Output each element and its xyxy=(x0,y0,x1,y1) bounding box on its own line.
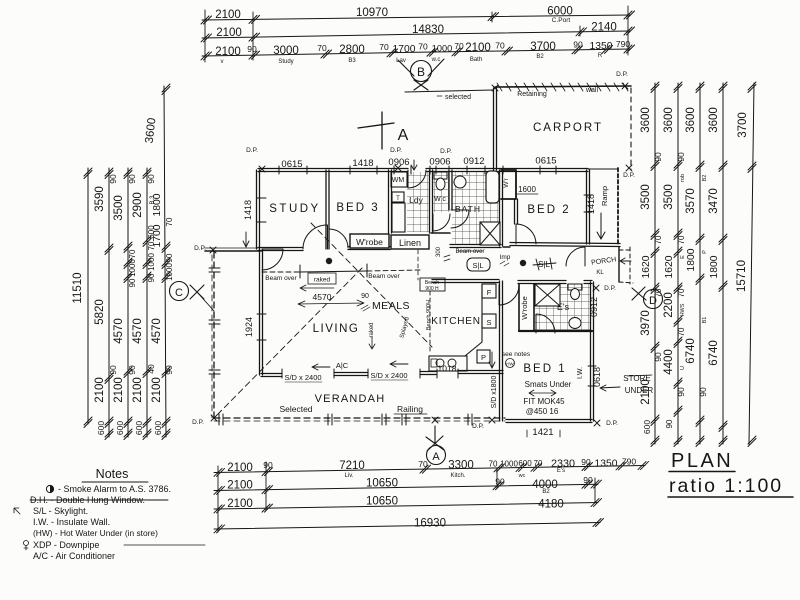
svg-text:1000: 1000 xyxy=(147,253,156,271)
dimension row top-2 xyxy=(201,22,635,42)
svg-text:90: 90 xyxy=(127,174,137,184)
svg-text:90: 90 xyxy=(665,419,674,428)
svg-text:CARPORT: CARPORT xyxy=(533,122,603,134)
kitchen stove xyxy=(429,356,467,371)
wall north main xyxy=(258,169,588,172)
svg-text:W'r: W'r xyxy=(503,177,510,187)
svg-text:3470: 3470 xyxy=(708,188,720,214)
svg-text:10650: 10650 xyxy=(366,496,398,508)
wc toilet xyxy=(434,172,447,179)
svg-text:B1: B1 xyxy=(702,317,708,324)
svg-text:1000: 1000 xyxy=(165,263,174,281)
svg-text:70: 70 xyxy=(379,42,389,52)
dimension col right-2 xyxy=(663,82,686,447)
svg-text:I.W. - Insulate Wall.: I.W. - Insulate Wall. xyxy=(33,517,110,527)
svg-text:70: 70 xyxy=(418,42,428,52)
wall bath south xyxy=(450,245,501,248)
svg-text:Selected: Selected xyxy=(279,404,312,414)
svg-text:90: 90 xyxy=(583,475,593,485)
svg-text:3300: 3300 xyxy=(448,460,474,472)
wall hall south - ensuite north xyxy=(432,280,592,284)
svg-text:C.Port: C.Port xyxy=(552,17,571,24)
svg-text:1600: 1600 xyxy=(518,185,536,194)
svg-text:790: 790 xyxy=(622,457,636,467)
svg-text:FIT MOK45: FIT MOK45 xyxy=(523,397,565,406)
svg-text:Study: Study xyxy=(278,59,293,65)
svg-text:D.P.: D.P. xyxy=(192,419,204,426)
dimension row bottom-4 xyxy=(214,518,604,533)
svg-text:1924: 1924 xyxy=(244,317,254,337)
svg-text:S/D x1800: S/D x1800 xyxy=(491,376,498,409)
svg-text:3700: 3700 xyxy=(737,112,749,138)
laundry WM box xyxy=(391,172,407,187)
dimension col right-4 xyxy=(708,82,727,447)
svg-text:3970: 3970 xyxy=(640,310,652,336)
svg-text:4570: 4570 xyxy=(313,292,332,302)
skylight boxed S/L xyxy=(467,258,490,271)
svg-text:90: 90 xyxy=(108,174,118,184)
svg-text:70: 70 xyxy=(165,217,174,226)
svg-text:70: 70 xyxy=(317,43,327,53)
wall wr closet xyxy=(501,170,516,199)
svg-text:40: 40 xyxy=(146,364,156,374)
verandah south dashed edge xyxy=(214,417,505,419)
svg-text:UNDER: UNDER xyxy=(625,386,654,395)
svg-text:4570: 4570 xyxy=(151,318,163,344)
door bed3 xyxy=(329,229,348,248)
svg-text:Liv.: Liv. xyxy=(345,473,354,479)
dimension row bottom-3 xyxy=(214,496,602,513)
wall bed1 south xyxy=(506,420,592,423)
door living (from study wall) xyxy=(262,249,283,270)
svg-text:S|L: S|L xyxy=(472,261,483,270)
svg-text:16930: 16930 xyxy=(414,518,446,530)
wall living-kitchen south xyxy=(261,371,503,377)
svg-text:B2: B2 xyxy=(542,489,550,495)
svg-text:1418: 1418 xyxy=(243,200,253,220)
svg-text:70: 70 xyxy=(534,459,543,468)
svg-text:D.P.: D.P. xyxy=(246,147,258,154)
svg-text:3570: 3570 xyxy=(685,188,697,214)
dimension row top-3 xyxy=(201,39,635,65)
laundry tiled floor xyxy=(407,172,430,232)
svg-text:D.P.: D.P. xyxy=(472,423,484,430)
svg-text:Imp: Imp xyxy=(500,254,511,261)
svg-text:Retaining: Retaining xyxy=(517,91,547,98)
raked ceiling dashed diagonal SE xyxy=(311,223,432,347)
svg-text:BED 1: BED 1 xyxy=(523,363,566,375)
svg-text:wc: wc xyxy=(518,473,526,479)
svg-text:WM: WM xyxy=(392,177,405,184)
wall partition study-bed3 xyxy=(326,170,329,249)
svg-text:1000: 1000 xyxy=(500,459,518,468)
svg-text:4400: 4400 xyxy=(663,349,675,375)
ensuite shower xyxy=(535,284,560,306)
wall bed1 east xyxy=(591,282,594,421)
svg-text:C: C xyxy=(175,287,183,299)
svg-text:D.P.: D.P. xyxy=(604,285,616,292)
svg-text:10650: 10650 xyxy=(366,478,398,490)
svg-text:2100: 2100 xyxy=(132,377,144,403)
svg-text:Beam over: Beam over xyxy=(455,249,484,255)
wall west study xyxy=(257,170,260,249)
dimension col left-2 xyxy=(94,168,118,440)
wall hall north bed2 side xyxy=(503,246,510,248)
svg-text:D.P.: D.P. xyxy=(623,172,635,179)
dimension col right-5 xyxy=(736,82,756,447)
kitchen west dashed xyxy=(429,291,431,353)
svg-text:70: 70 xyxy=(677,235,686,244)
svg-text:U: U xyxy=(680,366,686,370)
svg-text:1620: 1620 xyxy=(664,255,675,278)
dimension col left-5 xyxy=(151,84,174,440)
kitchen bench note box xyxy=(420,278,445,291)
svg-text:3600: 3600 xyxy=(640,107,652,133)
svg-text:70: 70 xyxy=(495,41,505,51)
closet Linen xyxy=(391,235,429,249)
svg-text:2100: 2100 xyxy=(215,9,241,21)
svg-text:D: D xyxy=(649,295,657,307)
svg-text:D.P.: D.P. xyxy=(616,71,628,78)
svg-text:90: 90 xyxy=(361,293,369,300)
svg-text:raked: raked xyxy=(369,322,375,337)
svg-text:3500: 3500 xyxy=(663,184,675,210)
svg-text:B2: B2 xyxy=(702,175,708,182)
svg-text:VERANDAH: VERANDAH xyxy=(315,393,386,405)
dimension row top-1 xyxy=(201,6,635,25)
svg-text:2100: 2100 xyxy=(216,27,242,39)
svg-text:90: 90 xyxy=(653,152,663,162)
svg-text:1418: 1418 xyxy=(352,158,373,169)
svg-text:(HW) - Hot Water Under (in sto: (HW) - Hot Water Under (in store) xyxy=(33,528,158,538)
door bed1 entry xyxy=(499,285,519,305)
svg-text:1000: 1000 xyxy=(432,44,452,54)
svg-text:90: 90 xyxy=(165,253,174,262)
svg-text:5820: 5820 xyxy=(94,299,106,325)
dimension row bottom-2 xyxy=(214,475,602,495)
bath tub xyxy=(486,171,499,203)
svg-text:3700: 3700 xyxy=(530,41,556,53)
svg-text:2100: 2100 xyxy=(113,377,125,403)
door bed2 xyxy=(516,224,536,244)
svg-text:0912: 0912 xyxy=(463,156,484,167)
svg-text:2100: 2100 xyxy=(227,480,253,492)
svg-text:1800: 1800 xyxy=(152,193,163,216)
beam over line living xyxy=(262,271,300,273)
svg-text:Kitch.: Kitch. xyxy=(450,473,465,479)
carport west top X xyxy=(492,85,498,91)
ramp east dashed edge xyxy=(617,168,619,244)
svg-text:STUDY: STUDY xyxy=(269,203,320,215)
wall bed2 east xyxy=(587,170,590,244)
svg-text:3590: 3590 xyxy=(94,186,106,212)
window ticks xyxy=(257,166,596,386)
svg-text:90: 90 xyxy=(247,44,257,54)
dimension col right-3 xyxy=(685,82,708,447)
svg-text:0615: 0615 xyxy=(535,156,556,167)
svg-text:W'robe: W'robe xyxy=(520,296,529,320)
svg-text:see notes: see notes xyxy=(502,351,531,358)
bath tiled floor xyxy=(452,172,500,245)
svg-text:I.W.: I.W. xyxy=(577,367,584,379)
svg-text:90: 90 xyxy=(676,387,686,397)
svg-text:v: v xyxy=(221,59,224,65)
svg-text:2100: 2100 xyxy=(465,42,491,54)
bath basin xyxy=(454,176,466,188)
svg-text:600: 600 xyxy=(134,421,144,435)
ensuite toilet xyxy=(568,284,582,290)
svg-text:7210: 7210 xyxy=(339,460,365,472)
svg-text:Bath: Bath xyxy=(470,57,482,63)
svg-text:wall: wall xyxy=(585,87,599,94)
verandah north eave line xyxy=(205,250,261,252)
svg-text:6740: 6740 xyxy=(708,340,720,366)
svg-text:90: 90 xyxy=(146,174,156,184)
svg-text:B3: B3 xyxy=(348,58,356,64)
svg-text:90: 90 xyxy=(127,365,137,375)
ensuite tiled floor xyxy=(534,284,590,330)
svg-text:2140: 2140 xyxy=(591,22,617,34)
svg-text:ratio 1:100: ratio 1:100 xyxy=(669,475,783,497)
wall south study-bed3 xyxy=(258,247,390,251)
svg-text:600: 600 xyxy=(96,421,106,435)
svg-text:BED 2: BED 2 xyxy=(527,204,570,216)
svg-text:3600: 3600 xyxy=(663,107,675,133)
svg-text:selected: selected xyxy=(445,94,471,101)
svg-text:raked: raked xyxy=(314,277,331,284)
svg-text:0906: 0906 xyxy=(429,157,450,168)
svg-text:B: B xyxy=(417,65,425,79)
svg-text:0615: 0615 xyxy=(281,159,302,170)
svg-text:B2: B2 xyxy=(536,54,544,60)
door ensuite xyxy=(536,314,555,333)
svg-text:70: 70 xyxy=(654,235,663,244)
leader left corner xyxy=(205,247,258,249)
ensuite basin xyxy=(569,318,581,329)
carport east dashed edge xyxy=(630,88,632,170)
door laundry xyxy=(408,170,426,188)
section marker D xyxy=(632,287,663,309)
svg-text:D.P.: D.P. xyxy=(440,148,452,155)
svg-text:90: 90 xyxy=(263,460,273,470)
retaining wall west segment xyxy=(405,90,492,92)
svg-text:3600: 3600 xyxy=(708,107,720,133)
svg-text:D.P.: D.P. xyxy=(194,245,206,252)
svg-text:S/D x 2400: S/D x 2400 xyxy=(370,371,407,380)
svg-text:2100: 2100 xyxy=(215,46,241,58)
svg-text:1620: 1620 xyxy=(641,255,652,278)
svg-text:1800: 1800 xyxy=(686,248,697,271)
svg-text:2100: 2100 xyxy=(151,377,163,403)
svg-text:70: 70 xyxy=(418,459,428,469)
dimension extension lines top xyxy=(205,6,628,62)
svg-text:E's: E's xyxy=(557,468,565,474)
raked boxed note xyxy=(308,273,336,284)
wc tiled floor xyxy=(433,172,450,212)
svg-text:w.c: w.c xyxy=(431,57,441,63)
svg-text:2800: 2800 xyxy=(339,44,365,56)
svg-text:0906: 0906 xyxy=(388,157,409,168)
porch east dashed steps xyxy=(619,247,633,284)
svg-text:90: 90 xyxy=(108,365,118,375)
svg-text:1421: 1421 xyxy=(532,427,553,438)
svg-text:90: 90 xyxy=(147,273,156,282)
svg-text:P: P xyxy=(481,353,486,362)
svg-text:@450 16: @450 16 xyxy=(526,407,559,416)
svg-text:90: 90 xyxy=(164,365,174,375)
verandah west dashed edge xyxy=(213,252,215,418)
svg-text:900 H: 900 H xyxy=(425,286,439,292)
svg-text:70: 70 xyxy=(677,327,686,336)
svg-text:70: 70 xyxy=(454,41,464,51)
laundry tub T box xyxy=(392,192,404,202)
svg-text:2100: 2100 xyxy=(94,377,106,403)
svg-text:F: F xyxy=(487,288,492,297)
svg-text:90: 90 xyxy=(676,152,686,162)
svg-text:2200: 2200 xyxy=(663,292,675,318)
dimension col left-4 xyxy=(132,168,156,440)
svg-text:1700: 1700 xyxy=(393,44,416,55)
svg-text:4570: 4570 xyxy=(113,318,125,344)
svg-text:2900: 2900 xyxy=(132,192,144,218)
door study xyxy=(303,225,328,249)
svg-text:2100: 2100 xyxy=(227,462,253,474)
svg-text:3000: 3000 xyxy=(273,45,299,57)
door wc xyxy=(433,214,450,231)
svg-text:2100: 2100 xyxy=(227,498,253,510)
svg-text:4570: 4570 xyxy=(132,318,144,344)
notes block xyxy=(14,467,205,561)
svg-text:600: 600 xyxy=(115,421,125,435)
svg-text:Linen: Linen xyxy=(399,238,421,248)
svg-text:HWS: HWS xyxy=(680,303,686,316)
svg-text:1350: 1350 xyxy=(595,458,618,469)
svg-text:Bench 900H: Bench 900H xyxy=(426,300,432,330)
svg-text:A: A xyxy=(398,127,409,144)
wall bed2 west xyxy=(515,199,518,224)
section marker A top xyxy=(358,112,409,149)
dimension col right-1 xyxy=(640,82,663,447)
svg-text:15710: 15710 xyxy=(736,260,748,292)
smoke alarm hall xyxy=(520,260,526,266)
laundry cabinet xyxy=(392,203,405,232)
svg-text:90: 90 xyxy=(653,352,663,362)
section marker B xyxy=(398,59,444,90)
ramp north thin line xyxy=(588,168,618,170)
dimension row bottom-1 xyxy=(214,457,649,480)
svg-text:1000: 1000 xyxy=(128,259,137,277)
dimension col left-3 xyxy=(113,168,137,440)
verandah posts xyxy=(219,414,223,425)
wall carport west xyxy=(494,88,497,170)
svg-text:S/D x 2400: S/D x 2400 xyxy=(284,373,321,382)
svg-text:BED 3: BED 3 xyxy=(336,202,379,214)
kitchen bench F/S xyxy=(482,284,496,298)
wall porch east xyxy=(618,247,620,282)
svg-text:R: R xyxy=(598,53,603,59)
dimension col left-1 (11510) xyxy=(72,168,92,428)
wall ensuite south xyxy=(519,330,592,332)
svg-text:rob: rob xyxy=(680,174,686,182)
svg-text:70: 70 xyxy=(128,249,137,258)
svg-text:6740: 6740 xyxy=(685,338,697,364)
svg-text:D.P.: D.P. xyxy=(390,147,402,154)
svg-text:70: 70 xyxy=(489,460,498,469)
svg-text:HW: HW xyxy=(506,362,514,367)
svg-text:T: T xyxy=(396,196,400,202)
wall bath east xyxy=(500,170,503,246)
bath shower xyxy=(480,222,500,245)
svg-text:S/L - Skylight.: S/L - Skylight. xyxy=(33,506,88,516)
retaining wall carport north xyxy=(495,83,631,91)
svg-text:70: 70 xyxy=(677,288,686,297)
closet W'robe bed3 xyxy=(350,234,389,248)
svg-text:90: 90 xyxy=(698,387,708,397)
svg-text:1350: 1350 xyxy=(590,41,613,52)
svg-text:A: A xyxy=(432,451,440,463)
svg-text:300: 300 xyxy=(436,246,442,257)
hall dashed section xyxy=(417,250,419,280)
svg-text:XDP - Downpipe: XDP - Downpipe xyxy=(33,540,99,550)
svg-text:- Smoke Alarm to A.S. 3786.: - Smoke Alarm to A.S. 3786. xyxy=(58,484,171,494)
svg-text:14830: 14830 xyxy=(412,24,444,36)
svg-text:600: 600 xyxy=(642,420,652,434)
dimension extension lines bottom xyxy=(218,462,595,532)
section marker A bottom xyxy=(426,426,446,465)
door bath xyxy=(451,210,469,228)
svg-text:4180: 4180 xyxy=(538,499,564,511)
wall ensuite wrobe strip xyxy=(518,284,520,331)
svg-text:Smats Under: Smats Under xyxy=(525,380,572,389)
svg-text:90: 90 xyxy=(581,457,591,467)
svg-text:1018: 1018 xyxy=(438,364,457,374)
wall living west xyxy=(260,249,263,375)
svg-text:MEALS: MEALS xyxy=(372,300,410,312)
raked ceiling dashed diagonal SW xyxy=(215,268,362,417)
svg-text:KL: KL xyxy=(596,270,604,276)
svg-text:600: 600 xyxy=(153,421,163,435)
section marker C xyxy=(170,282,215,312)
svg-text:0618: 0618 xyxy=(592,367,602,387)
downpipe labels xyxy=(192,71,635,430)
svg-text:W'robe: W'robe xyxy=(356,237,383,247)
wall wc-bath xyxy=(449,170,452,210)
svg-text:6000: 6000 xyxy=(547,6,573,18)
kitchen pantry P xyxy=(477,350,490,363)
svg-text:Beam over: Beam over xyxy=(265,275,297,282)
svg-text:Ramp: Ramp xyxy=(600,186,609,206)
wall wc south thin xyxy=(431,232,450,234)
svg-text:A|C: A|C xyxy=(336,361,349,370)
wall bed2 south xyxy=(510,243,620,247)
svg-text:1418: 1418 xyxy=(586,194,596,214)
svg-text:A/C - Air Conditioner: A/C - Air Conditioner xyxy=(33,551,115,561)
svg-text:P: P xyxy=(702,250,708,254)
door porch xyxy=(566,247,585,266)
svg-text:Beam over: Beam over xyxy=(368,273,400,280)
svg-text:90: 90 xyxy=(573,40,583,50)
svg-text:3500: 3500 xyxy=(113,195,125,221)
svg-text:S: S xyxy=(486,318,491,327)
svg-text:1800: 1800 xyxy=(709,255,720,278)
svg-text:LIVING: LIVING xyxy=(313,323,360,335)
svg-text:10970: 10970 xyxy=(356,7,388,19)
svg-text:90: 90 xyxy=(128,278,137,287)
svg-text:1700: 1700 xyxy=(152,224,163,247)
svg-text:Notes: Notes xyxy=(96,467,129,481)
svg-text:600: 600 xyxy=(518,459,532,468)
wall kitchen-bed1 xyxy=(500,281,503,421)
